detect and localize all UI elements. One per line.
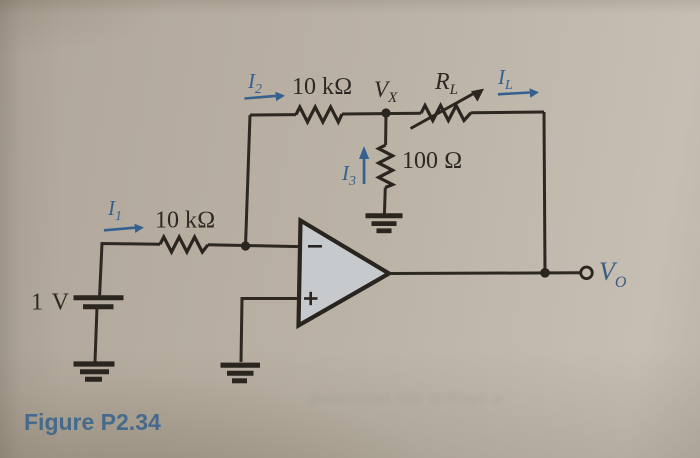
svg-text:IL: IL xyxy=(497,65,513,93)
wire resistor to op-amp inverting input xyxy=(208,245,300,247)
op-amp plus sign xyxy=(304,292,318,305)
wire feedback top xyxy=(250,112,544,116)
output terminal (open circle) xyxy=(581,267,593,279)
ground (under 100 ohm) xyxy=(366,216,403,231)
resistor 100 ohm (vertical) xyxy=(379,145,393,188)
svg-text:VO: VO xyxy=(599,257,627,291)
svg-text:10 kΩ: 10 kΩ xyxy=(155,208,215,234)
node output dot xyxy=(540,268,550,278)
current I1 arrow xyxy=(104,224,144,233)
svg-text:I1: I1 xyxy=(107,196,122,224)
wire battery to ground xyxy=(95,307,97,362)
op-amp minus sign xyxy=(308,245,322,248)
svg-text:RL: RL xyxy=(434,69,458,98)
current IL arrow xyxy=(498,88,539,97)
resistor 10k input xyxy=(160,237,208,252)
svg-text:I3: I3 xyxy=(341,161,356,189)
wire Vx to 100 ohm resistor xyxy=(384,113,387,145)
node Vx dot xyxy=(381,108,390,117)
wire 100 ohm to ground xyxy=(383,188,387,216)
svg-text:10 kΩ: 10 kΩ xyxy=(292,74,352,100)
ground (non-inverting input) xyxy=(221,365,261,381)
svg-text:100 Ω: 100 Ω xyxy=(402,148,462,174)
svg-text:VX: VX xyxy=(374,77,398,106)
node at inverting input xyxy=(241,241,250,250)
svg-text:Figure P2.34: Figure P2.34 xyxy=(24,409,161,435)
ground (under battery) xyxy=(74,364,115,379)
svg-text:1 V: 1 V xyxy=(31,290,70,316)
wire op-amp output xyxy=(389,271,581,275)
current I2 arrow xyxy=(244,92,285,101)
resistor RL arrow xyxy=(410,89,484,130)
svg-text:I2: I2 xyxy=(247,69,262,97)
wire feedback right (down to output) xyxy=(544,112,545,273)
current I3 arrow (up) xyxy=(359,146,369,184)
resistor 10k top xyxy=(296,107,342,122)
battery V1 xyxy=(74,298,124,307)
op-amp U1 xyxy=(299,221,390,326)
resistor RL (variable) xyxy=(421,106,471,121)
wire battery to input resistor xyxy=(100,244,161,298)
wire non-inverting input xyxy=(241,299,300,363)
wire feedback left (to inverting node) xyxy=(246,115,251,247)
